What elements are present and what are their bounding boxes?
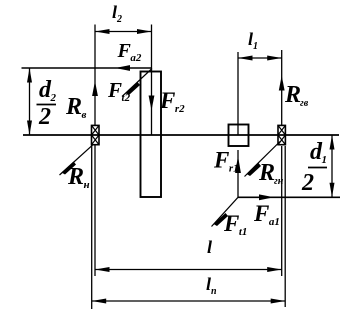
dimension l2 xyxy=(95,29,152,34)
reaction Rv up arrowhead on left bearing centerline xyxy=(92,81,98,96)
top datum line at gear2 radius xyxy=(22,67,152,69)
dimension d1/2 xyxy=(330,135,335,197)
right bearing xyxy=(278,125,285,144)
extension lines below right bearing xyxy=(281,146,283,276)
reaction Rn diagonal arrow at left bearing xyxy=(60,145,94,175)
dimension ln xyxy=(92,299,286,304)
left bearing xyxy=(92,125,100,144)
dimension l1 xyxy=(238,56,282,61)
dimension d2/2 xyxy=(27,68,32,135)
force Ft1 diagonal arrow xyxy=(212,197,239,226)
gear 1 body xyxy=(229,125,249,147)
extension line: gear2 centerline xyxy=(151,25,153,136)
extension line: left bearing centerline up to l2 dim xyxy=(94,25,96,126)
extension lines below left bearing xyxy=(91,145,93,309)
force Fa1 arrowhead on lower-right line xyxy=(259,194,274,200)
force Ft2 diagonal arrow xyxy=(122,69,152,97)
shaft axis line xyxy=(23,134,339,136)
svg-text:2: 2 xyxy=(38,104,51,130)
extension line: right bearing centerline up xyxy=(281,50,283,125)
gear 2 body xyxy=(141,72,162,198)
svg-text:2: 2 xyxy=(301,170,314,196)
dimension l xyxy=(95,267,282,272)
force Fa2 arrowhead on top line xyxy=(115,65,130,71)
force Fr1 up arrowhead below gear1 xyxy=(237,150,239,197)
extension line: gear1 centerline xyxy=(237,52,239,135)
svg-text:l: l xyxy=(207,237,212,257)
lower-right datum line at gear1 radius xyxy=(238,196,340,198)
force Fr2 arrowhead down gear2 centerline xyxy=(149,96,155,111)
reaction Rgv up arrowhead on right bearing centerline xyxy=(279,76,285,91)
reaction Rgn diagonal arrow at right bearing xyxy=(245,142,281,177)
